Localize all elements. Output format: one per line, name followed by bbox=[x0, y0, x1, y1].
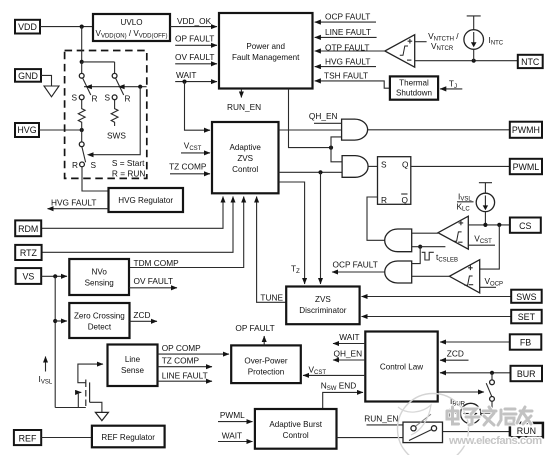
switch SW4 top contact bbox=[490, 380, 495, 385]
transistor Q1 body bar bbox=[89, 382, 91, 402]
svg-text:Zero Crossing: Zero Crossing bbox=[74, 312, 125, 321]
watermark char 5 bbox=[517, 407, 532, 424]
svg-text:OV FAULT: OV FAULT bbox=[134, 276, 174, 286]
ground bbox=[44, 86, 59, 97]
svg-text:Control: Control bbox=[232, 165, 258, 174]
wire WAIT in bbox=[175, 81, 217, 83]
wire branch down to ZVS Discriminator bbox=[320, 172, 322, 284]
svg-text:SET: SET bbox=[518, 312, 536, 322]
wire RUN_EN stub bbox=[367, 424, 404, 426]
pin NTC bbox=[518, 55, 543, 68]
wire U5 out to gate B bbox=[412, 275, 450, 277]
wire VCST in bbox=[181, 152, 210, 154]
svg-text:R = RUN: R = RUN bbox=[112, 169, 145, 179]
wire HVG FAULT in bbox=[315, 66, 376, 68]
wire OV FAULT out of NVo bbox=[129, 287, 177, 289]
svg-text:Sense: Sense bbox=[121, 366, 144, 375]
pin VDD bbox=[15, 20, 40, 34]
resistor R start1 bbox=[78, 100, 85, 130]
svg-text:BUR: BUR bbox=[517, 369, 536, 379]
transistor Q1 channel bbox=[85, 380, 87, 407]
svg-text:Discriminator: Discriminator bbox=[299, 306, 347, 315]
watermark char 3 bbox=[483, 407, 496, 425]
switch SW5 enclosure bbox=[403, 422, 443, 443]
and gate G1 bbox=[342, 119, 368, 140]
wire CS to U5 plus bbox=[480, 225, 500, 269]
label - (U5) bbox=[469, 284, 473, 286]
watermark char 4 bbox=[498, 409, 516, 425]
svg-text:Fault Management: Fault Management bbox=[232, 53, 300, 62]
node VS junction 1 bbox=[53, 274, 57, 278]
switch SW1 blade bbox=[83, 78, 91, 95]
wire ZCD out bbox=[130, 320, 158, 322]
node HVG junction bbox=[80, 128, 84, 132]
wire LINE FAULT bbox=[315, 36, 377, 38]
watermark stamp wave bbox=[398, 405, 431, 435]
wire Adaptive Burst Control to run switch bbox=[337, 437, 404, 439]
label - (U3) bbox=[407, 59, 411, 61]
label - (U4) bbox=[458, 241, 462, 243]
svg-text:RUN_EN: RUN_EN bbox=[364, 414, 398, 424]
wire blanking to gate B bbox=[412, 247, 421, 264]
wire enable to AND gate G1 bbox=[331, 137, 342, 148]
switch SW2 bottom contact bbox=[112, 95, 117, 100]
wire G2 to latch S bbox=[368, 165, 377, 167]
wire TSH FAULT bbox=[315, 81, 391, 88]
svg-text:RTZ: RTZ bbox=[20, 248, 38, 258]
svg-text:Power and: Power and bbox=[246, 42, 285, 51]
node BUR junction bbox=[490, 371, 494, 375]
wire Q1 to ground bbox=[90, 402, 102, 412]
switch SW1 top contact bbox=[79, 73, 84, 78]
and gate B (mirrored) bbox=[385, 261, 412, 283]
svg-text:TZ COMP: TZ COMP bbox=[162, 356, 200, 366]
switch SW4 bottom contact bbox=[490, 397, 495, 402]
wire junction to switch tops bbox=[82, 62, 115, 74]
wire VCST to Over-Power Protection bbox=[303, 374, 365, 376]
node blanking junction bbox=[418, 245, 422, 249]
svg-text:NTC: NTC bbox=[521, 57, 540, 67]
block Control Law bbox=[365, 332, 437, 402]
block ZVS Discriminator bbox=[286, 287, 359, 325]
svg-text:OP FAULT: OP FAULT bbox=[235, 323, 274, 333]
wire HVG to SW3 bbox=[81, 130, 83, 142]
node gate enable junction bbox=[329, 146, 333, 150]
svg-text:HVG Regulator: HVG Regulator bbox=[118, 196, 173, 205]
svg-text:Line: Line bbox=[125, 355, 141, 364]
svg-text:Protection: Protection bbox=[248, 368, 284, 377]
svg-text:NVo: NVo bbox=[92, 268, 108, 277]
block NVo Sensing bbox=[69, 259, 129, 295]
svg-text:LINE FAULT: LINE FAULT bbox=[325, 27, 371, 37]
wire OP FAULT in bbox=[175, 44, 217, 46]
pin RDM bbox=[15, 220, 41, 236]
supply rail IBUR bbox=[450, 409, 461, 419]
pulse glyph tCSLEB bbox=[422, 252, 434, 260]
wire LINE FAULT out bbox=[158, 380, 213, 382]
wire HVG to start switch bbox=[39, 129, 82, 131]
wire Q to PWML bbox=[411, 165, 510, 167]
comparator U5 bbox=[449, 260, 479, 293]
hysteresis glyph U4 bbox=[453, 232, 461, 241]
hysteresis glyph U3 bbox=[400, 46, 408, 55]
svg-text:WAIT: WAIT bbox=[222, 431, 242, 441]
wire VS to Zero Crossing Detect bbox=[55, 320, 67, 322]
wire gate B out OCP FAULT bbox=[332, 271, 385, 273]
wire OCP FAULT bbox=[315, 21, 376, 23]
svg-text:UVLO: UVLO bbox=[120, 18, 142, 27]
svg-text:Q: Q bbox=[402, 159, 409, 169]
pin GND bbox=[15, 69, 41, 82]
wire blanking stub bbox=[420, 246, 445, 248]
pin HVG bbox=[15, 123, 39, 137]
node NTC junction bbox=[472, 59, 476, 63]
wire TJ in bbox=[440, 88, 462, 90]
wire ZVS out to gate G1 bbox=[279, 129, 342, 131]
wire ZCD to Control Law bbox=[440, 359, 469, 361]
transistor Q1 gate arrow bbox=[78, 391, 81, 393]
wire U4 minus input VCST bbox=[468, 244, 495, 246]
node VDD junction bbox=[80, 25, 84, 29]
svg-text:HVG FAULT: HVG FAULT bbox=[325, 57, 371, 67]
block Adaptive ZVS Control bbox=[212, 122, 279, 193]
svg-text:OV FAULT: OV FAULT bbox=[175, 52, 215, 62]
svg-text:Over-Power: Over-Power bbox=[244, 357, 287, 366]
switch SW5 contact 2 bbox=[431, 426, 436, 431]
wire WAIT to Adaptive Burst Control bbox=[218, 441, 253, 443]
switch SW2 blade bbox=[116, 78, 124, 95]
wire TZ COMP out bbox=[158, 366, 213, 368]
wire blanking to gate A bbox=[412, 246, 421, 248]
wire BUR to Control Law bbox=[440, 372, 511, 374]
wire VS rail down bbox=[54, 276, 56, 407]
wire Control Law to burst switch bbox=[438, 391, 484, 393]
switch SW3 top contact bbox=[79, 142, 84, 147]
svg-text:Control Law: Control Law bbox=[380, 363, 423, 372]
wire QH_EN stub bbox=[314, 122, 342, 124]
switch SW3 bottom contact bbox=[80, 162, 85, 167]
wire BUR junction down bbox=[491, 373, 493, 380]
switch SW5 contact 1 bbox=[411, 426, 416, 431]
svg-text:GND: GND bbox=[18, 71, 38, 81]
svg-text:HVG FAULT: HVG FAULT bbox=[51, 198, 97, 208]
pin SWS bbox=[511, 290, 542, 303]
svg-text:Q: Q bbox=[402, 195, 409, 205]
svg-text:S: S bbox=[105, 93, 111, 103]
node WAIT junction bbox=[182, 80, 186, 84]
comparator U4 bbox=[438, 216, 468, 249]
svg-text:PWML: PWML bbox=[220, 410, 245, 420]
wire CS net bbox=[468, 224, 510, 226]
svg-text:TUNE: TUNE bbox=[260, 293, 283, 303]
svg-text:ZCD: ZCD bbox=[447, 349, 464, 359]
svg-text:VDD: VDD bbox=[18, 22, 37, 32]
wire TUNE to ZVS bottom bbox=[257, 197, 287, 303]
ground (Q1) bbox=[95, 412, 108, 420]
block Adaptive Burst Control bbox=[255, 409, 337, 449]
switch SW5 blade open bbox=[416, 414, 431, 426]
label + (U3) bbox=[408, 39, 413, 44]
svg-text:OP COMP: OP COMP bbox=[162, 343, 201, 353]
arrowhead at SW1 blade bbox=[85, 84, 92, 89]
supply rail INTC bbox=[467, 16, 481, 30]
wire gate A out to latch R bbox=[367, 197, 385, 240]
and gate A (mirrored) bbox=[385, 229, 412, 252]
node R line junction bbox=[138, 85, 142, 89]
watermark stamp circle bbox=[398, 394, 469, 455]
wire OTP FAULT from comparator U3 bbox=[315, 50, 385, 52]
node CS junction 2 bbox=[497, 223, 501, 227]
hysteresis glyph U5 bbox=[464, 276, 472, 285]
svg-text:Shutdown: Shutdown bbox=[396, 89, 432, 98]
svg-text:S: S bbox=[381, 159, 387, 169]
svg-text:R: R bbox=[125, 94, 131, 104]
wire TDM COMP to ZVS bottom bbox=[129, 197, 244, 268]
svg-text:SWS: SWS bbox=[516, 292, 536, 302]
wire WAIT to Adaptive ZVS bbox=[185, 82, 211, 131]
wire R line down to SW3 bbox=[92, 87, 140, 155]
wire SW4 to IBUR source bbox=[481, 401, 492, 413]
watermark char 2 bbox=[464, 409, 479, 425]
svg-text:QH_EN: QH_EN bbox=[334, 349, 363, 359]
svg-text:OP FAULT: OP FAULT bbox=[175, 34, 214, 44]
svg-text:VS: VS bbox=[22, 272, 34, 282]
wire SET to ZVS Discriminator bbox=[362, 316, 512, 318]
node ZVS-discriminator branch bbox=[318, 170, 322, 174]
svg-text:RDM: RDM bbox=[18, 224, 38, 234]
wire run switch to RUN bbox=[443, 431, 510, 433]
block Zero Crossing Detect bbox=[69, 303, 129, 338]
switch SW2 top contact bbox=[112, 73, 117, 78]
current source IBUR bbox=[461, 403, 481, 423]
svg-text:SWS: SWS bbox=[107, 131, 126, 141]
wire RDM to ZVS bottom bbox=[41, 197, 223, 229]
wire SWS to ZVS Discriminator bbox=[362, 296, 512, 298]
watermark char 1 bbox=[447, 407, 459, 424]
svg-text:FB: FB bbox=[520, 338, 531, 348]
wire VDD_OK bbox=[170, 26, 217, 28]
svg-text:REF Regulator: REF Regulator bbox=[101, 433, 155, 442]
supply rail IVSL/KLC bbox=[479, 183, 492, 194]
pin CS bbox=[510, 218, 541, 233]
svg-text:PWMH: PWMH bbox=[512, 125, 540, 135]
wire FB to Control Law bbox=[440, 341, 510, 343]
block Power and Fault Management bbox=[219, 13, 313, 89]
wire U3 plus input bbox=[415, 41, 427, 43]
pin PWMH bbox=[510, 122, 542, 138]
block REF Regulator bbox=[92, 426, 165, 448]
arrowhead at SW2 blade bbox=[118, 84, 125, 89]
current source IVSL/KLC bbox=[476, 193, 494, 211]
svg-text:WAIT: WAIT bbox=[339, 332, 359, 342]
wire PWML to Adaptive Burst Control bbox=[218, 421, 253, 423]
wire enable to AND gate G2 bbox=[331, 148, 342, 162]
wire gate enable from PFM bbox=[289, 89, 332, 148]
pin RUN bbox=[510, 423, 543, 437]
svg-text:R: R bbox=[381, 195, 387, 205]
wire RUN_EN down bbox=[240, 89, 242, 98]
svg-text:VDD_OK: VDD_OK bbox=[177, 16, 212, 26]
wire HVG FAULT out bbox=[48, 208, 109, 210]
wire R control line bbox=[84, 86, 147, 88]
switch SW4 blade bbox=[486, 383, 492, 396]
svg-text:S = Start: S = Start bbox=[112, 158, 145, 168]
svg-text:R: R bbox=[92, 94, 98, 104]
pin VS bbox=[16, 268, 42, 284]
svg-text:TDM COMP: TDM COMP bbox=[134, 258, 180, 268]
label + (U5) bbox=[468, 266, 473, 271]
svg-text:QH_EN: QH_EN bbox=[309, 111, 338, 121]
pin RTZ bbox=[15, 245, 41, 260]
wire SW3 to HVG Regulator bbox=[82, 167, 109, 191]
pin BUR bbox=[511, 366, 543, 381]
svg-text:OCP FAULT: OCP FAULT bbox=[325, 12, 370, 22]
wire REF to regulator bbox=[41, 437, 92, 439]
svg-text:Control: Control bbox=[283, 431, 309, 440]
svg-text:WAIT: WAIT bbox=[176, 70, 196, 80]
wire VDD to UVLO bbox=[40, 26, 93, 28]
comparator U3 (NTC) bbox=[385, 35, 415, 67]
pin PWML bbox=[510, 159, 542, 174]
svg-text:RUN_EN: RUN_EN bbox=[227, 102, 261, 112]
wire TZ down to ZVS Discriminator bbox=[279, 182, 305, 284]
wire FET drain to Line Sense bbox=[78, 364, 103, 383]
wire QH_EN out of Control Law bbox=[333, 359, 365, 361]
svg-text:LINE FAULT: LINE FAULT bbox=[162, 371, 208, 381]
svg-text:TSH FAULT: TSH FAULT bbox=[324, 71, 368, 81]
node CS junction 1 bbox=[483, 223, 487, 227]
block Line Sense bbox=[108, 345, 158, 387]
current source INTC bbox=[464, 30, 484, 50]
svg-text:ZVS: ZVS bbox=[315, 295, 331, 304]
wire OV FAULT in bbox=[175, 63, 217, 65]
wire VS to NVo Sensing bbox=[41, 275, 67, 277]
node switch feed junction bbox=[80, 60, 84, 64]
wire IVSL source to CS line bbox=[484, 212, 486, 225]
pin SET bbox=[511, 310, 542, 324]
wire NSW END to Control Law bbox=[323, 392, 363, 409]
svg-text:Sensing: Sensing bbox=[85, 279, 114, 288]
dashed startup block bbox=[65, 51, 147, 179]
block Thermal Shutdown bbox=[390, 76, 438, 99]
svg-text:ZCD: ZCD bbox=[133, 310, 150, 320]
label + (U4) bbox=[459, 221, 464, 226]
wire G1 to PWMH bbox=[368, 129, 510, 131]
switch SW1 bottom contact bbox=[79, 95, 84, 100]
switch SW5 blade bbox=[409, 430, 432, 441]
svg-text:REF: REF bbox=[19, 433, 37, 443]
svg-text:Thermal: Thermal bbox=[399, 79, 429, 88]
pin FB bbox=[510, 334, 542, 349]
svg-text:Detect: Detect bbox=[88, 323, 112, 332]
svg-text:R: R bbox=[72, 160, 78, 170]
pin REF bbox=[14, 430, 41, 445]
svg-text:www.elecfans.com: www.elecfans.com bbox=[448, 435, 542, 447]
svg-text:Adaptive Burst: Adaptive Burst bbox=[269, 420, 322, 429]
svg-text:ZVS: ZVS bbox=[237, 154, 253, 163]
label IVSL arrow bbox=[45, 357, 47, 372]
svg-text:HVG: HVG bbox=[17, 125, 36, 135]
arrowhead at SW3 blade bbox=[87, 152, 94, 157]
wire WAIT out of Control Law bbox=[333, 343, 365, 345]
latch U2 SR flip-flop bbox=[378, 157, 411, 205]
wire GND to ground bbox=[41, 75, 52, 86]
svg-text:S: S bbox=[91, 160, 97, 170]
svg-text:OCP FAULT: OCP FAULT bbox=[333, 260, 378, 270]
svg-text:S: S bbox=[72, 93, 78, 103]
wire TZ COMP in bbox=[170, 173, 210, 175]
wire comparator U4 out to gate A bbox=[412, 232, 438, 234]
svg-text:CS: CS bbox=[519, 221, 531, 231]
wire OP FAULT up bbox=[263, 336, 265, 345]
svg-text:NSW END: NSW END bbox=[321, 381, 357, 392]
switch SW3 blade bbox=[82, 147, 86, 163]
and gate G2 bbox=[342, 156, 368, 178]
resistor R start2 bbox=[111, 100, 118, 126]
svg-text:PWML: PWML bbox=[513, 162, 540, 172]
block UVLO bbox=[93, 14, 170, 41]
wire OP COMP bbox=[158, 353, 230, 355]
block HVG Regulator bbox=[109, 188, 184, 212]
wire U3 minus input to NTC bbox=[415, 60, 518, 62]
wire RTZ to ZVS bottom bbox=[42, 197, 233, 253]
block Over-Power Protection bbox=[231, 345, 301, 383]
wire INTC to NTC line bbox=[473, 49, 475, 60]
wire VDD down into dashed block bbox=[81, 27, 83, 62]
svg-text:TZ COMP: TZ COMP bbox=[169, 162, 207, 172]
svg-text:Adaptive: Adaptive bbox=[229, 143, 261, 152]
node VS junction 2 bbox=[53, 319, 57, 323]
wire ZVS out to gate G2 bbox=[279, 171, 343, 173]
wire U5 minus input VOCP bbox=[480, 286, 496, 288]
wire Q1 source bbox=[55, 392, 86, 407]
